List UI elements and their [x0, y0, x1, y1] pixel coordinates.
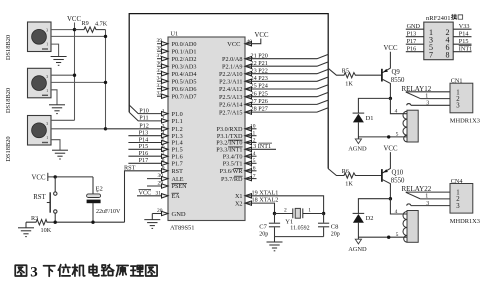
- svg-text:8550: 8550: [391, 178, 405, 185]
- wire stub P3 pin12: [245, 142, 257, 144]
- svg-text:P0.6/AD6: P0.6/AD6: [172, 86, 197, 93]
- svg-text:AGND: AGND: [348, 246, 367, 253]
- wire DQ rail: [105, 30, 107, 129]
- svg-text:MHDR1X3: MHDR1X3: [450, 218, 480, 225]
- svg-text:20p: 20p: [331, 231, 340, 237]
- svg-text:P2.7/A15: P2.7/A15: [219, 109, 243, 116]
- svg-text:R3: R3: [31, 215, 38, 222]
- svg-text:P3.4/T0: P3.4/T0: [223, 153, 243, 160]
- wire P23 to bus: [245, 77, 328, 81]
- wire nRF right INT1: [453, 51, 471, 53]
- svg-text:P0.7/AD7: P0.7/AD7: [172, 93, 197, 100]
- wire XTAL2: [245, 203, 275, 213]
- wire nRF right V33: [453, 28, 471, 30]
- node VCC/sensor1: [73, 28, 76, 31]
- svg-text:P17: P17: [139, 157, 149, 164]
- svg-text:1: 1: [46, 136, 48, 140]
- wire sensor1 DQ: [51, 35, 106, 37]
- relay RELAY12 coil: [403, 110, 418, 142]
- svg-text:P2.5/A13: P2.5/A13: [219, 94, 243, 101]
- wire sensor2 DQ: [51, 81, 106, 83]
- wire nRF left P13: [406, 36, 424, 38]
- svg-text:D1: D1: [366, 115, 374, 122]
- svg-text:20p: 20p: [259, 231, 268, 237]
- svg-text:D2: D2: [366, 215, 374, 222]
- node reset/switch: [54, 175, 57, 178]
- wire P27 to bus: [245, 108, 328, 112]
- wire nRF left P17: [406, 43, 424, 45]
- svg-text:22 P21: 22 P21: [251, 60, 268, 67]
- svg-text:32: 32: [157, 91, 163, 97]
- wire RST to MCU: [125, 171, 169, 222]
- svg-text:VCC: VCC: [384, 45, 398, 52]
- svg-text:P2.3/A11: P2.3/A11: [219, 79, 242, 86]
- svg-text:1K: 1K: [345, 80, 353, 87]
- svg-text:P1.1: P1.1: [172, 118, 183, 125]
- svg-text:27 P26: 27 P26: [251, 98, 268, 105]
- wire stub P13: [128, 135, 168, 137]
- ground reset R3: [25, 222, 27, 228]
- svg-text:17: 17: [250, 173, 256, 179]
- svg-text:X1: X1: [235, 193, 243, 200]
- wire stub P3 pin15: [245, 162, 257, 164]
- svg-text:P1.6: P1.6: [172, 153, 183, 160]
- wire collector to relay coil: [390, 199, 407, 214]
- relay RELAY12 contact: [402, 85, 451, 107]
- svg-text:23 P22: 23 P22: [251, 67, 268, 74]
- crystal Y1 11.0592: [275, 208, 324, 232]
- wire stub P15: [128, 148, 168, 150]
- svg-text:34: 34: [157, 76, 163, 82]
- node DQ/sensor2: [104, 81, 107, 84]
- wire stub P3 pin16: [245, 170, 257, 172]
- svg-text:28 P27: 28 P27: [251, 106, 268, 113]
- wire P20 to bus: [245, 54, 328, 58]
- svg-text:P17: P17: [407, 38, 417, 45]
- wire reset top rail: [48, 176, 93, 178]
- svg-text:Q10: Q10: [392, 170, 404, 177]
- svg-text:RST: RST: [124, 165, 136, 172]
- svg-text:2: 2: [162, 116, 165, 122]
- svg-text:3: 3: [456, 103, 460, 110]
- svg-text:P16: P16: [139, 150, 149, 157]
- svg-text:20: 20: [157, 208, 163, 214]
- svg-text:P3.6/WR: P3.6/WR: [220, 168, 244, 175]
- svg-text:GND: GND: [172, 211, 186, 218]
- svg-text:7: 7: [162, 151, 165, 157]
- svg-text:X2: X2: [235, 200, 243, 207]
- svg-text:P1.0: P1.0: [172, 111, 183, 118]
- svg-text:11: 11: [250, 131, 256, 137]
- svg-text:GND: GND: [407, 23, 421, 30]
- svg-text:15: 15: [250, 158, 256, 164]
- relay RELAY22 contact: [402, 185, 451, 207]
- wire nRF left GND: [406, 28, 424, 30]
- wire P25 to bus: [245, 92, 328, 96]
- resistor R6 1K: [328, 169, 381, 179]
- wire nRF left P16: [406, 51, 424, 53]
- wire VCC rail: [74, 23, 76, 121]
- svg-text:P11: P11: [139, 115, 148, 122]
- svg-text:R6: R6: [342, 168, 349, 175]
- svg-text:VCC: VCC: [384, 146, 398, 153]
- stub ALE pin30: [147, 178, 168, 180]
- svg-text:P1.7: P1.7: [172, 161, 183, 168]
- node rail/switch: [54, 221, 57, 224]
- svg-text:6: 6: [162, 144, 165, 150]
- wire sensor1 VDD: [51, 29, 75, 31]
- svg-text:VCC: VCC: [255, 32, 269, 39]
- switch RST push-button: [47, 177, 57, 222]
- svg-text:Q9: Q9: [392, 69, 401, 76]
- svg-text:4: 4: [395, 109, 398, 115]
- svg-text:nRF2401: nRF2401: [426, 15, 451, 22]
- svg-text:P15: P15: [459, 38, 469, 45]
- node XTAL1/C8: [322, 212, 325, 215]
- svg-text:10: 10: [250, 124, 256, 130]
- wire sensor3 VDD: [51, 119, 75, 121]
- connector J1 nRF2401 interface body: [424, 22, 453, 60]
- svg-text:31: 31: [156, 190, 162, 196]
- svg-text:29: 29: [158, 181, 164, 187]
- capacitor E2 22uF/10V electrolytic: [92, 177, 94, 194]
- wire crystal bottom rail: [275, 236, 324, 238]
- svg-text:EA: EA: [172, 193, 181, 200]
- connector CN4 MHDR1X3: [450, 178, 480, 225]
- wire sensor2 GND: [51, 90, 57, 105]
- svg-text:37: 37: [157, 53, 163, 59]
- svg-text:3: 3: [46, 29, 48, 33]
- stub GND pin20: [152, 213, 168, 215]
- svg-text:1: 1: [46, 43, 48, 47]
- svg-text:24 P23: 24 P23: [251, 75, 268, 82]
- svg-text:P3.5/T1: P3.5/T1: [223, 161, 243, 168]
- ground MCU GND: [144, 220, 160, 229]
- svg-text:16: 16: [250, 166, 256, 172]
- bus top loop: [129, 14, 328, 169]
- svg-text:1: 1: [308, 208, 311, 214]
- svg-text:P0.3/AD3: P0.3/AD3: [172, 63, 197, 70]
- svg-text:40: 40: [247, 39, 253, 45]
- svg-text:35: 35: [157, 68, 163, 74]
- svg-text:AT89S51: AT89S51: [170, 224, 195, 231]
- node rail/E2: [91, 221, 94, 224]
- svg-text:5: 5: [396, 132, 399, 138]
- svg-text:38: 38: [157, 46, 163, 52]
- transistor Q10 8550: [382, 152, 405, 199]
- svg-text:1: 1: [46, 89, 48, 93]
- wire stub P16: [128, 155, 168, 157]
- wire sensor1 GND: [51, 44, 59, 56]
- wire XTAL1: [245, 196, 324, 214]
- op-amp/MCU U1 AT89S51 body: [168, 37, 245, 221]
- svg-text:3: 3: [46, 122, 48, 126]
- svg-text:PSEN: PSEN: [172, 183, 188, 190]
- svg-text:P10: P10: [139, 107, 149, 114]
- node DQ/sensor1: [104, 35, 107, 38]
- node P12 wire: [106, 128, 169, 130]
- svg-text:P0.0/AD0: P0.0/AD0: [172, 41, 197, 48]
- wire nRF right P14: [453, 36, 471, 38]
- node Q10 collector: [389, 197, 392, 200]
- wire P26 to bus: [245, 100, 328, 104]
- svg-text:P2.2/A10: P2.2/A10: [219, 71, 243, 78]
- svg-text:22uF/10V: 22uF/10V: [96, 209, 121, 215]
- svg-text:MHDR1X3: MHDR1X3: [450, 118, 480, 125]
- svg-text:7: 7: [429, 50, 433, 59]
- svg-text:VCC: VCC: [139, 189, 152, 196]
- wire P24 to bus: [245, 85, 328, 89]
- svg-text:8: 8: [162, 158, 165, 164]
- ground AGND D2: [355, 239, 361, 244]
- wire collector to relay coil: [390, 98, 407, 113]
- svg-text:3: 3: [162, 124, 165, 130]
- svg-text:V33: V33: [459, 23, 470, 30]
- svg-text:P0.1/AD1: P0.1/AD1: [172, 48, 197, 55]
- svg-text:INT1: INT1: [459, 45, 472, 52]
- svg-text:+: +: [96, 189, 99, 195]
- wire EA VCC pin31: [137, 195, 168, 197]
- wire stub P3 pin10: [245, 128, 257, 130]
- resistor R9 4.7K pull-up: [75, 27, 106, 32]
- capacitor C7 20p: [259, 214, 280, 238]
- wire stub P3 pin14: [245, 155, 257, 157]
- ground crystal: [274, 237, 276, 242]
- svg-text:3: 3: [30, 265, 38, 281]
- node DQ/P12: [104, 127, 107, 130]
- svg-text:DS18B20: DS18B20: [5, 35, 12, 60]
- ground sensor2: [49, 105, 65, 114]
- wire sensor2 VDD: [51, 74, 75, 76]
- bus entry P11: [129, 112, 168, 121]
- bus entry P10: [129, 105, 168, 114]
- svg-text:P13: P13: [407, 30, 417, 37]
- svg-text:VCC: VCC: [227, 41, 240, 48]
- wire nRF right P15: [453, 43, 471, 45]
- svg-text:19 XTAL1: 19 XTAL1: [252, 189, 279, 196]
- connector CN1 MHDR1X3: [450, 78, 480, 125]
- wire stub INT1 pin13: [245, 148, 276, 150]
- svg-text:10K: 10K: [41, 227, 52, 234]
- svg-text:25 P24: 25 P24: [251, 83, 268, 90]
- svg-text:DS18B20: DS18B20: [5, 136, 12, 161]
- svg-text:26 P25: 26 P25: [251, 90, 268, 97]
- capacitor C8 20p: [318, 214, 340, 238]
- wire relay coil pin5: [358, 136, 407, 138]
- svg-text:C8: C8: [331, 224, 339, 231]
- svg-text:P0.4/AD4: P0.4/AD4: [172, 71, 197, 78]
- svg-text:21 P20: 21 P20: [251, 52, 268, 59]
- svg-text:P14: P14: [459, 30, 469, 37]
- wire P22 to bus: [245, 69, 328, 73]
- caption figure 3: [15, 264, 157, 280]
- svg-text:P0.2/AD2: P0.2/AD2: [172, 56, 197, 63]
- svg-text:8: 8: [446, 50, 450, 59]
- svg-text:30: 30: [158, 173, 164, 179]
- svg-text:P2.0/A8: P2.0/A8: [222, 56, 242, 63]
- wire stub P14: [128, 142, 168, 144]
- sensor U2 DS18B20 body: [28, 22, 52, 52]
- svg-text:R5: R5: [342, 68, 349, 75]
- wire stub P17: [128, 162, 168, 164]
- wire stub P3 pin11: [245, 135, 257, 137]
- wire relay coil pin5: [358, 236, 407, 238]
- ground AGND D1: [355, 139, 361, 144]
- svg-text:9: 9: [162, 166, 165, 172]
- svg-text:4.7K: 4.7K: [95, 20, 108, 27]
- svg-text:8550: 8550: [391, 77, 405, 84]
- svg-text:RST: RST: [33, 194, 46, 201]
- svg-text:R9: R9: [82, 20, 89, 27]
- transistor Q9 8550: [382, 52, 405, 99]
- diode D1: [353, 98, 391, 138]
- svg-text:VCC: VCC: [32, 175, 46, 182]
- svg-text:U1: U1: [171, 31, 179, 38]
- svg-text:DS18B20: DS18B20: [5, 88, 12, 113]
- svg-text:P0.5/AD5: P0.5/AD5: [172, 78, 197, 85]
- relay RELAY22 coil: [403, 211, 418, 243]
- wire sensor3 DQ joins P12 line: [51, 128, 106, 130]
- svg-text:Y1: Y1: [285, 218, 293, 225]
- svg-text:3: 3: [46, 75, 48, 79]
- svg-text:P2.4/A12: P2.4/A12: [219, 86, 243, 93]
- node VCC/sensor2: [73, 74, 76, 77]
- svg-text:39: 39: [157, 38, 163, 44]
- svg-text:P16: P16: [407, 45, 417, 52]
- svg-text:P2.1/A9: P2.1/A9: [222, 63, 242, 70]
- sensor U4 DS18B20 body: [28, 116, 52, 146]
- node Q9 collector: [389, 97, 392, 100]
- svg-text:18 XTAL2: 18 XTAL2: [252, 197, 279, 204]
- svg-text:14: 14: [250, 151, 256, 157]
- diode D2: [353, 199, 391, 240]
- resistor R3 10K: [26, 220, 125, 225]
- svg-text:13 INT1: 13 INT1: [250, 143, 271, 150]
- wire stub P3 pin17: [245, 178, 257, 180]
- resistor R5 1K: [328, 68, 381, 78]
- wire sensor3 GND: [51, 140, 60, 151]
- svg-text:33: 33: [157, 83, 163, 89]
- svg-text:1K: 1K: [345, 181, 353, 188]
- ground sensor1: [51, 57, 67, 66]
- svg-text:RST: RST: [172, 168, 184, 175]
- svg-text:4: 4: [395, 209, 398, 215]
- svg-text:2: 2: [284, 208, 287, 214]
- svg-text:5: 5: [162, 137, 165, 143]
- svg-text:AGND: AGND: [348, 146, 367, 153]
- svg-text:P3.7/RD: P3.7/RD: [221, 176, 243, 183]
- ground sensor3: [52, 150, 68, 159]
- wire P21 to bus: [245, 62, 328, 66]
- svg-text:4: 4: [162, 131, 165, 137]
- svg-text:3: 3: [456, 203, 460, 210]
- svg-text:VCC: VCC: [67, 16, 81, 23]
- svg-text:P2.6/A14: P2.6/A14: [219, 102, 243, 109]
- node XTAL2/C7: [273, 212, 276, 215]
- svg-text:11.0592: 11.0592: [290, 225, 309, 231]
- svg-text:1: 1: [162, 108, 165, 114]
- svg-text:ALE: ALE: [172, 176, 184, 183]
- svg-text:C7: C7: [259, 224, 267, 231]
- sensor U3 DS18B20 body: [28, 68, 52, 98]
- stub PSEN pin29: [147, 185, 168, 187]
- svg-text:36: 36: [157, 61, 163, 67]
- nRF title CJK jie-kou: [451, 14, 457, 20]
- svg-text:5: 5: [396, 232, 399, 238]
